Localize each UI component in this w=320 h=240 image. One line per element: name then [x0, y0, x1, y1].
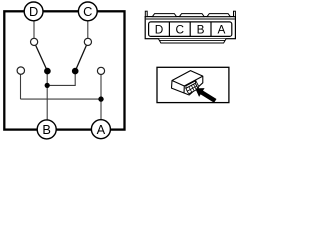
- svg-text:D: D: [29, 4, 38, 19]
- wire left contact down: [20, 74, 22, 99]
- wire bottom horizontal to A: [21, 98, 102, 100]
- wire junction1 to dot2: [47, 71, 75, 85]
- open contact right: [97, 67, 104, 74]
- connector 3d icon top-face edges: [172, 76, 203, 93]
- switch arm from C pivot: [75, 42, 88, 71]
- terminal D: [24, 2, 43, 21]
- terminal C: [78, 2, 97, 21]
- pivot circle under C: [84, 38, 91, 45]
- svg-text:B: B: [42, 122, 51, 137]
- connector tab inner line: [160, 39, 225, 41]
- switch arm from D pivot: [34, 42, 47, 71]
- divider C|B: [189, 22, 191, 37]
- divider D|C: [168, 22, 170, 37]
- svg-text:A: A: [97, 122, 106, 137]
- svg-text:C: C: [176, 22, 185, 36]
- wire dot1 down to B: [46, 71, 48, 120]
- terminal A: [91, 120, 110, 139]
- connector rib 3: [207, 14, 230, 17]
- svg-text:A: A: [217, 22, 225, 36]
- pivot circle under D: [30, 38, 37, 45]
- connector rib 1: [152, 14, 176, 17]
- divider B|A: [210, 22, 212, 37]
- wire C to pivot: [87, 21, 89, 39]
- connector right latch spike: [234, 11, 236, 16]
- connector rib 2: [179, 14, 204, 17]
- connector bottom tab: [158, 39, 226, 43]
- switch continuity schematic box: [4, 11, 124, 129]
- connector 3d icon socket: [185, 81, 200, 94]
- closed contact dot 1: [44, 68, 51, 75]
- legend arrow: [195, 88, 216, 103]
- closed contact dot 2: [72, 68, 79, 75]
- junction dot 1: [45, 83, 50, 88]
- wire D to pivot: [33, 21, 35, 39]
- connector terminal strip: [149, 22, 232, 37]
- open contact left: [17, 67, 24, 74]
- wire right contact down to A: [100, 75, 102, 120]
- connector housing: [145, 17, 235, 39]
- svg-text:D: D: [155, 22, 164, 36]
- connector 3d icon body: [172, 71, 203, 95]
- svg-text:C: C: [83, 4, 92, 19]
- terminal B: [37, 120, 56, 139]
- junction dot 2: [98, 96, 103, 101]
- svg-text:B: B: [197, 22, 205, 36]
- connector lip line: [146, 18, 235, 20]
- legend box: [157, 67, 229, 102]
- connector left latch spike: [145, 11, 147, 16]
